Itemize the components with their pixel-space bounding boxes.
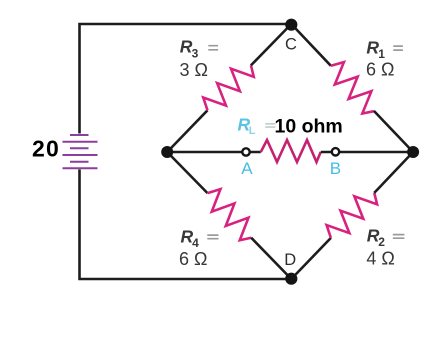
label R4 = [181, 227, 219, 251]
svg-text:4 Ω: 4 Ω [366, 248, 394, 268]
resistor R1 [324, 58, 383, 118]
node left junction [161, 146, 173, 158]
resistor R2 [322, 185, 381, 245]
svg-text:L: L [249, 125, 256, 137]
svg-text:A: A [241, 159, 253, 178]
svg-text:6 Ω: 6 Ω [179, 249, 207, 269]
wire left-node to terminal A [167, 151, 261, 154]
wire left-node to R4 [167, 152, 207, 193]
resistor R4 [200, 185, 259, 245]
svg-text:C: C [285, 36, 297, 54]
terminal A (open circle) [242, 148, 249, 155]
wire R2 to right node [374, 152, 413, 193]
wire R1 to right node [374, 111, 413, 152]
svg-text:2: 2 [378, 235, 385, 249]
wire R3 to node C [251, 24, 291, 65]
label R1 = [366, 37, 403, 61]
label R3 = [180, 37, 218, 61]
wire node D to R2 [291, 238, 331, 279]
resistor RL [261, 140, 321, 162]
wire RL to terminal B and right node [321, 151, 413, 154]
label R2 = [367, 226, 405, 250]
battery B1 [63, 135, 98, 168]
wire branch left-node to R3 [167, 110, 207, 152]
wire R4 to node D [251, 238, 291, 279]
terminal B (open circle) [332, 148, 339, 155]
wire top (battery + to node C) [80, 24, 292, 134]
svg-text:20: 20 [32, 136, 60, 162]
svg-text:B: B [330, 159, 341, 178]
label = (RL value) [265, 124, 275, 127]
resistor R3 [199, 57, 258, 117]
svg-text:10 ohm: 10 ohm [275, 116, 343, 138]
svg-text:3 Ω: 3 Ω [180, 60, 208, 80]
node right junction [407, 146, 419, 158]
node C junction [285, 19, 297, 31]
label RL [238, 115, 256, 138]
node D junction [285, 273, 297, 285]
svg-text:3: 3 [192, 46, 199, 60]
wire bottom (battery - to node D) [80, 170, 292, 280]
svg-text:6 Ω: 6 Ω [366, 60, 394, 80]
wire node C to R1 [291, 24, 331, 66]
svg-text:D: D [284, 251, 296, 269]
